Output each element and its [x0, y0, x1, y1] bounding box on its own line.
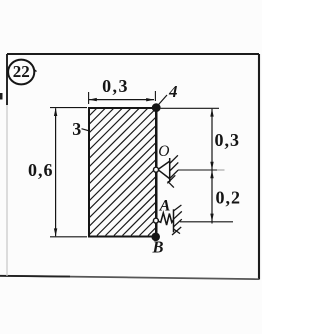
svg-text:A: A: [159, 197, 171, 214]
svg-text:4: 4: [168, 82, 178, 101]
svg-text:B: B: [151, 238, 163, 257]
svg-text:0,2: 0,2: [216, 188, 242, 208]
svg-text:0,3: 0,3: [215, 130, 241, 150]
svg-text:3: 3: [72, 119, 81, 139]
svg-text:0,3: 0,3: [102, 76, 129, 96]
svg-text:22: 22: [13, 62, 30, 81]
svg-text:O: O: [158, 143, 169, 160]
svg-text:0,6: 0,6: [28, 160, 54, 180]
